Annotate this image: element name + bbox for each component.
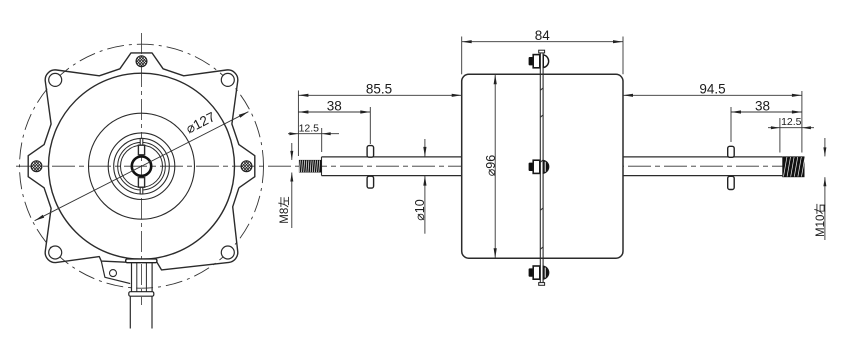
vertical centerline of front view bbox=[141, 33, 143, 305]
screw head right bbox=[241, 161, 252, 172]
dim 94.5 bbox=[623, 94, 802, 96]
svg-text:⌀96: ⌀96 bbox=[484, 155, 498, 176]
svg-text:94.5: 94.5 bbox=[699, 82, 725, 97]
key slot top (stepped) bbox=[140, 138, 143, 145]
hub circle r33 bbox=[108, 133, 175, 200]
dia 127 dimension line bbox=[35, 112, 249, 221]
lower-left pocket edge bbox=[101, 261, 130, 284]
shaft bore thick ring bbox=[132, 157, 151, 176]
horizontal centerline / shaft axis bbox=[16, 165, 806, 167]
dim dia10 bbox=[424, 139, 426, 157]
svg-text:12.5: 12.5 bbox=[781, 116, 802, 128]
svg-text:38: 38 bbox=[755, 98, 770, 113]
dim 85.5 bbox=[298, 94, 461, 96]
dim 12.5 left bbox=[288, 133, 339, 135]
cable gland collar bbox=[129, 292, 154, 297]
dim 38 left extension bbox=[369, 107, 371, 144]
dim 85.5 extension left bbox=[297, 91, 299, 157]
dim 12.5 right bbox=[768, 127, 814, 129]
screw head left bbox=[31, 161, 42, 172]
dim 84 bbox=[462, 41, 623, 43]
svg-text:⌀10: ⌀10 bbox=[413, 199, 427, 220]
dim 38 left bbox=[298, 111, 370, 113]
casing outer scalloped profile bbox=[28, 53, 255, 270]
svg-text:38: 38 bbox=[327, 98, 342, 113]
right shaft pin bbox=[728, 146, 735, 157]
drain hole bbox=[110, 270, 117, 277]
dim 94.5 extension right bbox=[801, 91, 803, 153]
inner circle r53 bbox=[89, 113, 195, 219]
dim 38 right bbox=[731, 111, 802, 113]
dim M10 right thread bbox=[824, 138, 826, 156]
bearing double ring bbox=[118, 142, 166, 190]
svg-text:85.5: 85.5 bbox=[366, 82, 392, 97]
through-bolt stud bbox=[539, 53, 541, 283]
svg-text:84: 84 bbox=[535, 28, 551, 43]
dim dia96 bbox=[494, 74, 496, 258]
left shaft bbox=[322, 156, 462, 158]
motor body side view bbox=[462, 74, 623, 258]
top nut bbox=[529, 55, 549, 68]
svg-text:M10右: M10右 bbox=[813, 203, 827, 237]
dim 84 extension lines bbox=[461, 37, 463, 75]
middle nut bbox=[529, 160, 549, 173]
dim M8 left thread bbox=[291, 143, 293, 160]
bottom nut bbox=[529, 266, 549, 279]
left thread M8 (hatched) bbox=[299, 160, 322, 173]
cable tube lower bbox=[129, 296, 131, 328]
svg-text:M8左: M8左 bbox=[277, 196, 291, 223]
cable gland tube outer bbox=[131, 263, 133, 292]
mounting hole 45deg bbox=[221, 73, 234, 86]
bolt circle (dash-dot) bbox=[20, 44, 264, 288]
dim 38 right extension bbox=[730, 107, 732, 142]
cable gland flange bbox=[126, 259, 157, 263]
cable gland tube inner bbox=[136, 263, 138, 292]
screw head top bbox=[136, 56, 147, 67]
right thread M10 (hatched) bbox=[782, 156, 805, 177]
stud bottom cap bbox=[539, 283, 545, 286]
stud top cap bbox=[539, 50, 545, 53]
right shaft bbox=[623, 156, 782, 158]
hub circle r28 bbox=[114, 138, 170, 194]
key slot bottom (stepped) bbox=[140, 187, 143, 194]
svg-text:12.5: 12.5 bbox=[299, 122, 320, 134]
left shaft pin bbox=[367, 146, 374, 158]
casing main circle bbox=[49, 73, 235, 259]
